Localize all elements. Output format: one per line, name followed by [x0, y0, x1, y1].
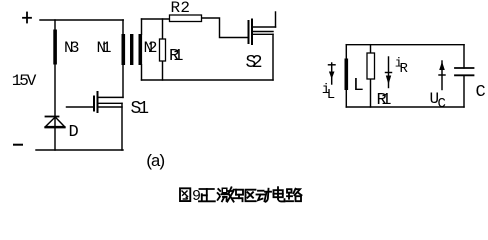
svg-text:9: 9 — [192, 188, 201, 205]
svg-text:C: C — [438, 96, 446, 112]
svg-text:L: L — [353, 76, 364, 96]
svg-text:R: R — [400, 61, 409, 77]
svg-text:N2: N2 — [144, 39, 158, 57]
svg-text:C: C — [476, 83, 486, 102]
svg-text:S1: S1 — [131, 99, 150, 119]
svg-text:L: L — [327, 87, 335, 103]
svg-text:D: D — [69, 123, 79, 142]
svg-text:15V: 15V — [12, 72, 37, 90]
svg-text:S2: S2 — [246, 53, 263, 73]
svg-text:N3: N3 — [64, 39, 80, 57]
svg-text:R1: R1 — [377, 91, 392, 110]
svg-text:N1: N1 — [97, 39, 112, 57]
svg-text:(a): (a) — [145, 153, 168, 172]
svg-text:R1: R1 — [169, 47, 184, 66]
svg-text:R2: R2 — [171, 0, 191, 17]
